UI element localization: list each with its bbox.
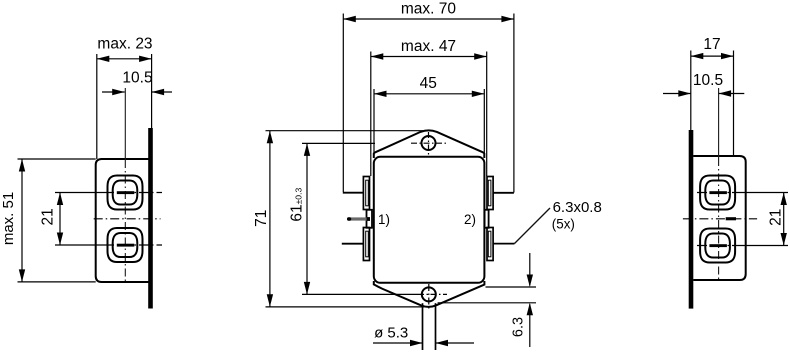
top hole vertical centre line: [428, 132, 430, 156]
screw S3 inner: [705, 181, 730, 205]
dimension 71: [253, 131, 424, 307]
svg-text:10.5: 10.5: [693, 72, 723, 89]
bottom hole vertical centre line: [428, 284, 430, 309]
bottom mounting tab: [374, 281, 485, 307]
terminal T1 inner: [366, 180, 369, 206]
body outline left view: [96, 159, 149, 282]
dimension 10.5 left view: [102, 70, 172, 96]
svg-text:2): 2): [464, 212, 476, 227]
mounting flange plate left view: [148, 128, 153, 309]
screw row centre line top: [697, 192, 740, 194]
earth tab right (small): [485, 210, 489, 228]
terminal T1 pin: [343, 192, 364, 194]
terminal T3 outer (left bottom): [363, 228, 369, 261]
screw S2 outer: [108, 228, 143, 262]
terminal T4 pin: [493, 243, 514, 245]
dimension 45: [374, 75, 484, 155]
terminal T4 inner: [488, 231, 491, 257]
dimension max. 47: [371, 38, 487, 176]
svg-text:max. 51: max. 51: [0, 192, 17, 245]
dimension 21 left view: [39, 193, 63, 246]
top mounting tab: [374, 130, 485, 158]
dimension 6.3: [438, 253, 536, 347]
screw center vertical line: [124, 88, 126, 160]
dimension max. 23: [97, 35, 153, 159]
bottom slot right edge: [435, 303, 437, 350]
body outline right view: [693, 156, 746, 280]
svg-text:max. 70: max. 70: [401, 0, 457, 17]
top mounting hole: [422, 136, 436, 150]
terminal T4 outer (right bottom): [487, 228, 493, 261]
dimension max. 51: [0, 159, 96, 282]
dimension max. 70: [343, 0, 514, 192]
screw S4 outer: [700, 229, 735, 263]
screw S4 inner: [705, 234, 730, 258]
terminal T2 inner: [488, 180, 491, 206]
dimension 61 +/-0.3: [289, 143, 447, 294]
dimension 21 right view: [767, 193, 787, 246]
bottom slot left edge: [422, 303, 424, 350]
screw centre vertical line: [718, 88, 720, 158]
screw S2 inner: [113, 233, 138, 257]
terminal T1 outer (left top): [363, 177, 369, 210]
svg-text:45: 45: [420, 75, 437, 92]
screw S4 slot: [709, 244, 727, 247]
screw row centre line bottom: [55, 244, 104, 246]
screw S1 slot: [117, 191, 135, 194]
unit centre dash-dot line: [94, 218, 161, 220]
leader 6.3x0.8 (5x): [515, 199, 602, 244]
screw S2 slot: [117, 244, 135, 247]
svg-text:max. 47: max. 47: [401, 38, 456, 55]
svg-text:6.3: 6.3: [510, 317, 526, 337]
unit centre dash-dot line: [683, 218, 757, 220]
dimension 17: [691, 36, 734, 156]
mounting flange plate right view: [689, 130, 694, 309]
terminal T2 outer (right top): [487, 177, 493, 210]
earth tab left (small): [367, 210, 373, 228]
earth pin (gray, pointing to viewer): [348, 217, 369, 220]
screw row centre line bottom: [697, 245, 740, 247]
dimension 10.5 right view: [663, 72, 744, 97]
svg-text:21: 21: [39, 208, 56, 225]
svg-text:10.5: 10.5: [122, 70, 152, 87]
svg-text:6.3x0.8: 6.3x0.8: [553, 199, 602, 216]
svg-text:max. 23: max. 23: [97, 35, 152, 52]
bottom mounting hole: [422, 287, 436, 301]
terminal T2 pin: [493, 192, 514, 194]
terminal T3 inner: [366, 231, 369, 257]
screw row centre line top: [55, 192, 104, 194]
svg-text:ø 5.3: ø 5.3: [374, 325, 408, 342]
svg-text:1): 1): [378, 212, 390, 227]
filter body front view: [374, 157, 485, 283]
svg-text:17: 17: [703, 36, 720, 53]
screw S3 outer: [700, 176, 735, 210]
top hole horizontal centre line: [411, 142, 446, 144]
svg-text:21: 21: [767, 209, 784, 226]
svg-text:71: 71: [253, 210, 270, 227]
screw S1 outer: [108, 176, 143, 210]
screw S1 inner: [113, 181, 138, 205]
dimension dia 5.3: [373, 325, 474, 347]
terminal T3 pin: [342, 243, 364, 245]
earth tab end-on (thick dash): [726, 217, 736, 220]
screw S3 slot: [709, 191, 727, 194]
svg-text:(5x): (5x): [552, 217, 575, 232]
